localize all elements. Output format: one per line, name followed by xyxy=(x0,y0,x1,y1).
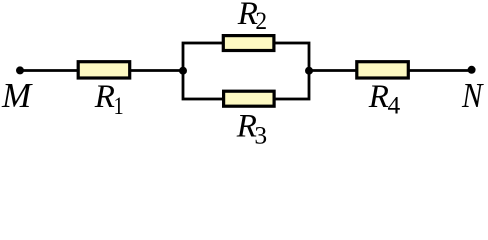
wire node J2 to R4 xyxy=(308,69,357,72)
svg-text:M: M xyxy=(1,76,33,115)
svg-text:2: 2 xyxy=(255,7,267,35)
label R3 xyxy=(236,109,267,150)
resistor R4 xyxy=(357,62,409,78)
resistor R1 xyxy=(78,62,130,78)
junction node J1 xyxy=(179,67,187,75)
label R1 xyxy=(94,79,124,120)
wire M to R1 xyxy=(20,69,78,72)
wire R1 to node J1 xyxy=(130,69,184,72)
junction node J2 xyxy=(305,67,313,75)
resistor R2 xyxy=(223,36,274,51)
svg-text:1: 1 xyxy=(114,91,124,120)
svg-text:3: 3 xyxy=(254,121,267,147)
wire R4 to N xyxy=(409,69,471,72)
label R4 xyxy=(368,79,401,120)
resistor R3 xyxy=(224,91,275,106)
svg-text:4: 4 xyxy=(388,91,401,120)
wire parallel loop (top/bottom branches and verticals) xyxy=(183,43,309,99)
terminal dot M xyxy=(16,66,24,74)
label R2 xyxy=(237,0,267,35)
svg-text:R: R xyxy=(368,79,389,115)
svg-text:N: N xyxy=(461,77,484,115)
svg-text:R: R xyxy=(94,79,115,115)
terminal dot N xyxy=(468,66,476,74)
